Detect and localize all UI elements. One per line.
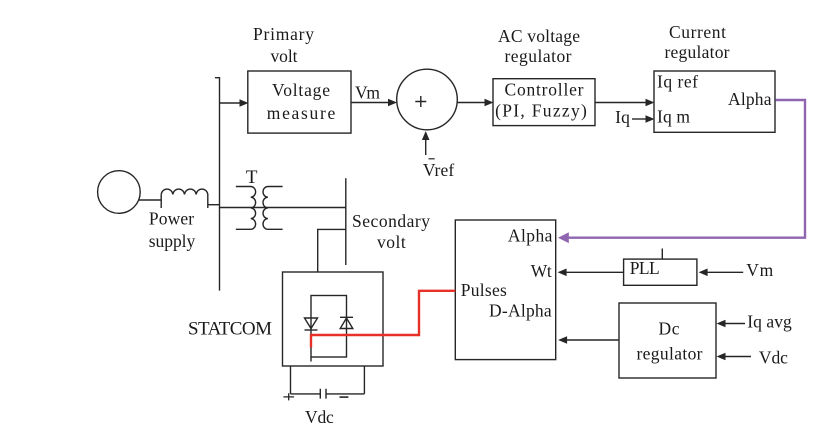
svg-text:regulator: regulator xyxy=(665,42,730,62)
svg-text:STATCOM: STATCOM xyxy=(188,319,272,340)
svg-text:Alpha: Alpha xyxy=(508,226,553,246)
svg-text:Dc: Dc xyxy=(659,319,680,339)
svg-text:Controller: Controller xyxy=(505,80,584,100)
svg-text:Vm: Vm xyxy=(746,260,773,280)
svg-text:Power: Power xyxy=(149,209,194,229)
svg-text:D-Alpha: D-Alpha xyxy=(489,301,552,321)
svg-text:Pulses: Pulses xyxy=(461,280,507,300)
svg-text:Alpha: Alpha xyxy=(728,89,772,109)
svg-text:Secondary: Secondary xyxy=(352,211,430,231)
svg-text:PLL: PLL xyxy=(630,258,660,278)
svg-text:T: T xyxy=(246,167,258,188)
svg-text:Vref: Vref xyxy=(423,160,454,180)
svg-text:Primary: Primary xyxy=(253,24,314,44)
svg-text:volt: volt xyxy=(271,46,298,66)
svg-text:Wt: Wt xyxy=(531,261,552,281)
svg-text:(PI, Fuzzy): (PI, Fuzzy) xyxy=(495,101,587,121)
svg-text:volt: volt xyxy=(377,232,406,252)
svg-text:Current: Current xyxy=(669,22,726,42)
svg-text:AC voltage: AC voltage xyxy=(498,26,580,46)
svg-text:Vm: Vm xyxy=(355,83,380,103)
svg-text:regulator: regulator xyxy=(637,344,703,364)
svg-text:measure: measure xyxy=(267,103,336,123)
svg-text:Voltage: Voltage xyxy=(272,80,330,100)
svg-text:Vdc: Vdc xyxy=(305,407,334,427)
svg-text:Iq m: Iq m xyxy=(657,107,690,127)
svg-text:supply: supply xyxy=(149,231,196,251)
svg-text:Iq ref: Iq ref xyxy=(657,72,698,92)
svg-text:Iq: Iq xyxy=(615,107,630,127)
svg-text:Vdc: Vdc xyxy=(759,347,788,367)
svg-text:Iq avg: Iq avg xyxy=(747,312,792,332)
svg-text:regulator: regulator xyxy=(505,46,572,66)
